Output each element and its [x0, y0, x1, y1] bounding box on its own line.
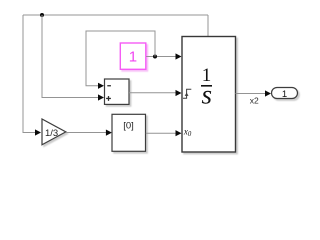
- node: junction dot after constant: [153, 55, 157, 59]
- arrowhead into outport: [265, 90, 271, 96]
- svg-text:[0]: [0]: [123, 121, 134, 132]
- svg-text:1/3: 1/3: [45, 128, 58, 139]
- wire: branch down to sum plus input: [42, 15, 98, 98]
- svg-text:x2: x2: [250, 96, 259, 106]
- fraction bar of 1/s: [201, 85, 212, 87]
- wire: gain output to IC block: [66, 132, 106, 134]
- wire: IC output to integrator x0 port: [146, 132, 176, 134]
- wire: integrator output to outport: [236, 93, 266, 95]
- wire: left branch down to gain input: [23, 15, 35, 133]
- arrowhead into integrator port 2: [176, 90, 182, 96]
- arrowhead into integrator x0 port: [176, 130, 182, 136]
- constant block Constant '1' (pink highlighted): [120, 43, 146, 69]
- sum block (Add: -+): [105, 79, 130, 104]
- reset port symbol (rising edge) at port 2: [183, 89, 191, 98]
- wire: state-port vertical drop to integrator top: [207, 15, 209, 37]
- svg-text:1: 1: [282, 89, 287, 100]
- arrowhead into sum minus: [98, 83, 104, 89]
- arrowhead into sum plus: [98, 94, 104, 100]
- IC block '[0]' (initial condition): [112, 114, 146, 151]
- gain block '1/3' (triangle): [42, 119, 66, 145]
- arrowhead into integrator port 1: [176, 53, 182, 59]
- svg-text:1: 1: [129, 48, 137, 65]
- arrowhead into gain: [35, 129, 41, 135]
- wire: sum output to integrator port 2: [129, 92, 176, 94]
- sign '+' of sum: [106, 98, 111, 99]
- wire: branch from junction up and over to sum minus input: [86, 31, 155, 86]
- node: junction dot on feedback wire: [40, 13, 44, 17]
- integrator block U1 '1/s': [182, 37, 236, 153]
- outport block '1' (oval): [272, 88, 298, 99]
- wire: state-port feedback top horizontal: [23, 14, 208, 16]
- wire: constant output to integrator input port 1: [146, 56, 176, 58]
- arrowhead into IC block: [106, 130, 112, 136]
- svg-text:s: s: [201, 80, 212, 110]
- sign '-' of sum: [107, 85, 111, 86]
